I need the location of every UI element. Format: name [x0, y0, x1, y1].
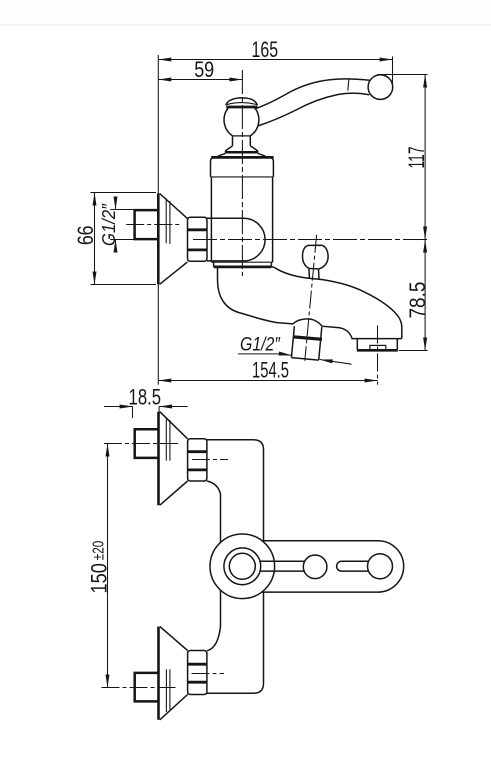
inlet axis centerline [193, 239, 428, 241]
hex nut (inlet union, side view) [188, 217, 208, 261]
body outline (plan) [207, 440, 264, 693]
extension aerator bottom [399, 350, 428, 352]
faint top divider band [0, 0, 491, 24]
dimension 154.5 [158, 380, 377, 382]
body bottom collar [211, 261, 272, 263]
dimension 150 +-20 [107, 444, 109, 688]
diverter axis centerline [305, 235, 317, 361]
lever arm [255, 79, 370, 109]
bottom wall pipe centerline [102, 687, 178, 689]
outlet centerline [377, 326, 379, 385]
top wall pipe stub [135, 429, 159, 458]
bottom hex nut [188, 651, 207, 695]
inlet boss with round end [207, 218, 265, 261]
inner cone lines [165, 198, 167, 243]
tick on lever arm [348, 79, 349, 91]
top escutcheon [157, 412, 160, 506]
extension line ball top (117 ref) [377, 74, 427, 76]
lever slot lines [260, 560, 304, 562]
svg-text:G1/2″: G1/2″ [98, 203, 119, 246]
top hex nut [188, 439, 207, 481]
handle cap big circle [210, 534, 275, 599]
spout bottom edge [218, 267, 402, 339]
svg-text:66: 66 [73, 225, 98, 245]
diverter stem [308, 268, 311, 278]
svg-text:165: 165 [252, 37, 279, 62]
lever ball circle [368, 554, 393, 579]
lever middle circle [303, 555, 327, 579]
svg-text:78.5: 78.5 [405, 282, 430, 319]
dimension G1/2 left [115, 197, 117, 210]
svg-text:59: 59 [194, 57, 214, 82]
skirt flare [218, 153, 226, 156]
svg-text:G1/2″: G1/2″ [240, 335, 281, 356]
wire: wall reference / extension line left [157, 55, 159, 385]
extension line right of 165 [392, 57, 394, 91]
handle ring outer [224, 548, 261, 585]
wall pipe centerline [126, 224, 182, 226]
lever capsule (plan) [262, 541, 404, 592]
shower hose nipple G1/2 [291, 326, 294, 357]
svg-text:154.5: 154.5 [252, 357, 289, 382]
handle cap band (thick) [226, 106, 257, 109]
centerline body axis (vertical) [241, 70, 243, 276]
svg-text:±20: ±20 [90, 540, 107, 560]
top inner cone lines [165, 417, 167, 460]
dimension 165 line [158, 59, 392, 61]
neck flange [225, 146, 232, 151]
dimension 59 line [158, 79, 242, 81]
faucet body (cartridge housing) [211, 156, 273, 159]
top inlet axis [192, 459, 228, 461]
bottom escutcheon [157, 627, 160, 720]
top wall pipe centerline [104, 443, 178, 445]
handle neck [232, 136, 234, 146]
spout top edge [271, 267, 402, 339]
aerator [370, 345, 386, 350]
svg-text:150: 150 [86, 563, 111, 593]
dimension 117 / 78.5 vertical line [424, 75, 426, 351]
bottom inlet axis [192, 673, 225, 675]
escutcheon (side view) [157, 194, 160, 285]
bottom inner cone lines [165, 669, 167, 712]
handle ring inner [229, 553, 255, 579]
svg-text:18.5: 18.5 [129, 384, 162, 409]
handle ball [368, 75, 393, 100]
outlet cup [356, 339, 358, 350]
bottom wall pipe stub [135, 673, 159, 702]
handle sphere joint [224, 108, 232, 136]
dimension 66 [94, 193, 96, 285]
wall pipe stub G1/2 (side view) [135, 210, 159, 239]
svg-text:117: 117 [404, 147, 429, 169]
handle cap dome [226, 98, 258, 105]
diverter knob [303, 245, 329, 269]
